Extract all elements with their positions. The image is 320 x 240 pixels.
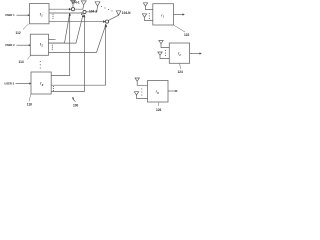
svg-text:104-2: 104-2 bbox=[89, 10, 97, 14]
svg-text:USER 2: USER 2 bbox=[5, 43, 15, 47]
svg-text:K: K bbox=[42, 85, 44, 87]
svg-text:K: K bbox=[157, 93, 159, 95]
svg-text:122: 122 bbox=[184, 33, 190, 37]
svg-text:100: 100 bbox=[73, 104, 79, 108]
svg-text:116: 116 bbox=[27, 103, 32, 107]
svg-text:USER 1: USER 1 bbox=[5, 13, 15, 17]
svg-text:104-N: 104-N bbox=[122, 11, 131, 15]
svg-text:2: 2 bbox=[41, 46, 44, 48]
svg-text:124: 124 bbox=[178, 70, 184, 74]
svg-text:126: 126 bbox=[156, 108, 162, 112]
svg-text:114: 114 bbox=[19, 60, 24, 64]
svg-text:104-1: 104-1 bbox=[72, 1, 80, 5]
svg-text:USER 3: USER 3 bbox=[4, 81, 14, 85]
svg-text:1: 1 bbox=[41, 16, 43, 18]
svg-text:112: 112 bbox=[16, 31, 21, 35]
svg-text:1: 1 bbox=[163, 16, 165, 18]
svg-text:2: 2 bbox=[178, 55, 181, 57]
